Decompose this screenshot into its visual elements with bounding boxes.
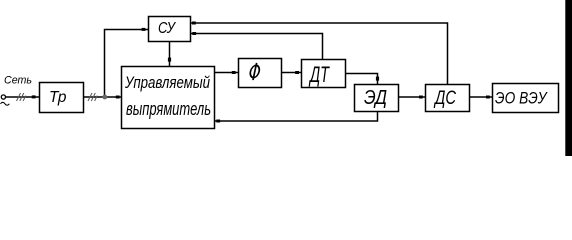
current sensor ДТ [302,60,346,88]
arrowhead into Управляемый выпрямитель left [116,96,120,99]
node Сеть input terminal [1,95,5,99]
node Сеть label [4,75,32,87]
control unit СУ [149,17,191,42]
svg-text:ЭД: ЭД [364,87,387,109]
svg-text:ЭО ВЭУ: ЭО ВЭУ [495,89,548,108]
controlled rectifier Управляемый выпрямитель [122,67,215,129]
svg-text:ДС: ДС [433,88,456,109]
svg-text:Сеть: Сеть [4,75,32,87]
multi-wire slash marks on Сеть-Тр wire [17,93,26,101]
multi-wire slash marks on Тр output wire [88,93,97,101]
svg-text:ДТ: ДТ [308,62,330,87]
feedback wire ДТ to СУ [191,32,323,60]
wire ДС to ЭО ВЭУ [470,96,493,99]
filter Ф [239,59,282,88]
wire Сеть to Тр [6,96,40,98]
wire ДТ to ЭД [346,74,380,85]
wire СУ down to Управляемый выпрямитель [168,42,171,67]
junction node on Тр output wire [102,95,107,100]
wire Управляемый выпрямитель to Ф [215,71,239,74]
wire Тр to Управляемый выпрямитель [84,96,122,98]
transformer Тр [40,83,84,113]
load ЭО ВЭУ [493,84,559,113]
svg-text:СУ: СУ [158,20,176,37]
page edge black bar [565,0,572,156]
arrowhead into Тр [32,95,36,98]
AC symbol ~ [1,102,10,105]
svg-text:Управляемый: Управляемый [124,73,210,92]
feedback wire ДС to СУ [191,22,448,85]
wire ЭД to ДС [399,96,426,99]
speed sensor ДС [426,85,470,112]
svg-text:выпрямитель: выпрямитель [126,99,211,119]
svg-text:Тр: Тр [49,89,67,106]
wire junction up to СУ [105,28,149,97]
feedback wire ЭД to Управляемый выпрямитель [215,112,378,123]
wire Ф to ДТ [282,71,302,74]
electric motor ЭД [355,85,399,112]
